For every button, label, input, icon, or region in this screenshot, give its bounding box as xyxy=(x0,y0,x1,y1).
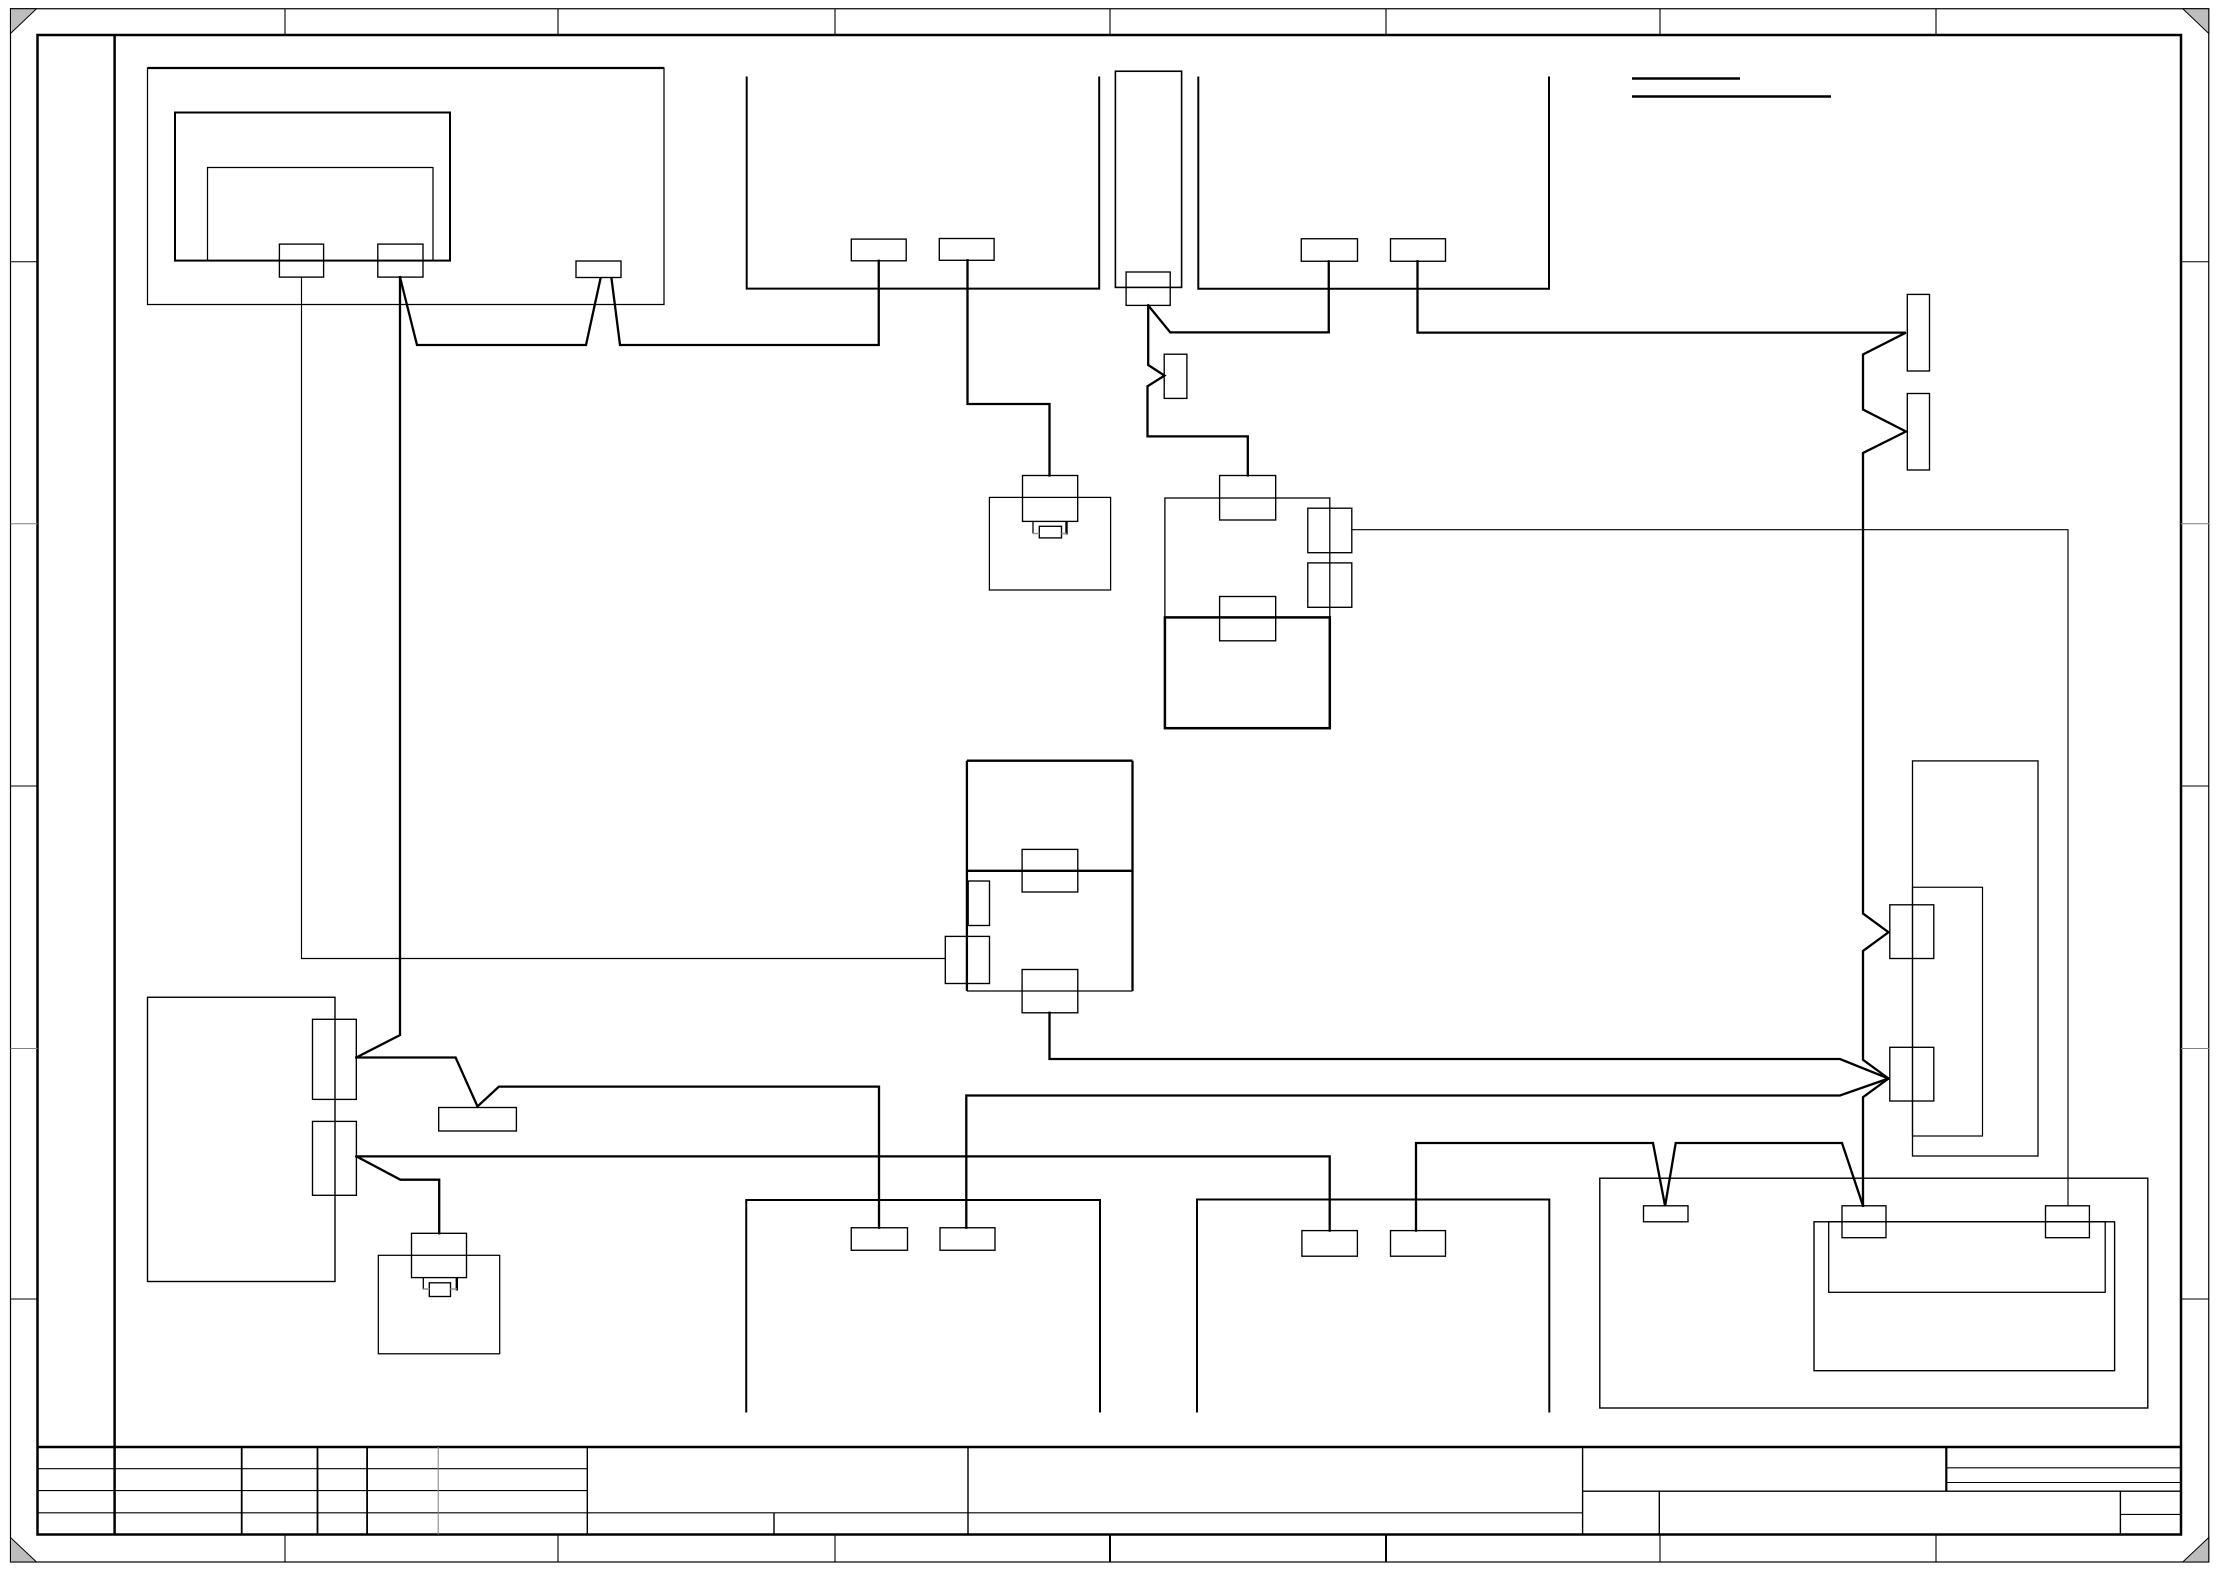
connector X5 xyxy=(851,239,906,261)
bottom margin tick 6 xyxy=(1659,1535,1661,1563)
top margin tick 2 xyxy=(557,9,559,35)
connector S1 relay narrow xyxy=(968,881,989,926)
sensor S1 bracket right foot xyxy=(1062,533,1067,535)
harness group H7 outline xyxy=(746,1200,1100,1412)
connector X12 right lower xyxy=(1907,394,1929,471)
sensor S1 body xyxy=(1023,476,1078,522)
right margin tick 4 xyxy=(2181,1048,2209,1050)
wire thin from U1 to battery positive xyxy=(1352,530,2068,1206)
connector E2 junction box xyxy=(313,1121,357,1195)
module M1 top edge xyxy=(148,67,665,69)
title block column g xyxy=(967,1447,969,1535)
right margin tick 1 xyxy=(2181,261,2209,263)
bottom margin tick 1 xyxy=(284,1535,286,1563)
sensor S2 outer box xyxy=(378,1255,499,1354)
corner trim triangle bottom-left xyxy=(11,1538,37,1563)
top margin tick 4 xyxy=(1109,9,1111,35)
module M1 inner box xyxy=(175,113,450,261)
note underline 1 xyxy=(1632,77,1740,80)
relay box M6 divider xyxy=(967,870,1133,872)
wire from connector X6 to sensor S1 xyxy=(968,260,1050,475)
title block row line 3 xyxy=(38,1512,1583,1514)
left margin tick 5 xyxy=(11,1298,38,1300)
top margin tick 5 xyxy=(1385,9,1387,35)
connector G2 box H7 xyxy=(940,1228,995,1251)
wire from right arrow to box H7 pin xyxy=(966,1079,1888,1228)
connector G1 box H7 xyxy=(851,1228,907,1251)
harness group H8 outline xyxy=(1197,1200,1549,1412)
right distribution box M10 inner xyxy=(1913,887,1983,1136)
right margin tick 2 xyxy=(2181,523,2209,525)
sensor S1 bracket left xyxy=(1032,521,1034,533)
title block top border xyxy=(38,1446,2182,1449)
note underline 2 xyxy=(1632,95,1831,98)
connector X1 xyxy=(279,244,323,277)
control unit U1 lower half xyxy=(1165,617,1330,728)
relay box M6 left edge xyxy=(966,761,968,991)
sensor S1 plug xyxy=(1039,526,1061,538)
top margin tick 7 xyxy=(1935,9,1937,35)
connector X14 U1 mid xyxy=(1220,597,1276,641)
connector F ground lug xyxy=(439,1108,517,1132)
sensor S2 bracket left foot xyxy=(423,1288,429,1290)
control unit U1 upper half xyxy=(1165,498,1330,617)
title block right row 1 xyxy=(1946,1467,2181,1469)
left margin tick 2 xyxy=(11,523,38,525)
relay box M6 right edge xyxy=(1131,761,1133,991)
title block row line 2 xyxy=(38,1490,588,1492)
sensor S1 bracket left foot xyxy=(1033,533,1039,535)
battery B1 inner cell xyxy=(1829,1222,2106,1293)
bottom margin tick 7 xyxy=(1935,1535,1937,1563)
wire from relay R2 to right arrow xyxy=(1050,1013,1889,1079)
connector L1 battery terminal xyxy=(1842,1206,1886,1238)
wire from E1 to breakout F then box H7 xyxy=(356,1058,879,1228)
connector H1 right box xyxy=(1890,905,1934,959)
left margin tick 3 xyxy=(11,785,38,787)
bottom margin tick 4 xyxy=(1109,1535,1111,1563)
wire from E2 to box H8 pin J1 xyxy=(356,1156,1329,1230)
left margin tick 4 xyxy=(11,1048,38,1050)
sensor S2 body xyxy=(412,1233,467,1277)
top margin tick 1 xyxy=(284,9,286,35)
title block mid row xyxy=(1583,1490,2181,1492)
title block column e xyxy=(586,1447,588,1535)
bottom margin tick 3 xyxy=(834,1535,836,1563)
connector X6 xyxy=(939,239,994,261)
connector X10 junction xyxy=(1164,354,1187,398)
title block column k xyxy=(2119,1491,2121,1534)
wire from J2 up and right to K and L1 xyxy=(1416,1143,1863,1231)
left margin tick 1 xyxy=(11,261,38,263)
wire from fuse box to control unit U1 xyxy=(1148,305,1248,475)
corner trim triangle bottom-right xyxy=(2183,1538,2209,1563)
sensor S1 outer box xyxy=(989,497,1110,590)
title block column b xyxy=(317,1447,319,1535)
connector S2 relay left xyxy=(945,936,989,983)
relay box M6 bottom edge xyxy=(967,990,1133,992)
harness group H3 outline xyxy=(1198,78,1549,289)
connector K battery box xyxy=(1644,1206,1689,1222)
connector X9 fuse box xyxy=(1126,272,1170,305)
connector X16 U1 right b xyxy=(1308,563,1352,607)
corner trim triangle top-left xyxy=(11,9,37,34)
fuse box F1 outline xyxy=(1115,71,1181,287)
bottom margin tick 5 xyxy=(1385,1535,1387,1563)
connector X4 xyxy=(576,261,621,278)
title block small row xyxy=(2120,1513,2181,1515)
sensor S2 plug xyxy=(429,1283,450,1297)
wire from E2 to sensor S2 xyxy=(356,1156,439,1233)
connector E1 junction box xyxy=(313,1019,357,1099)
title block column i xyxy=(1945,1447,1947,1491)
title block column a xyxy=(241,1447,243,1535)
sensor S2 bracket left xyxy=(422,1278,424,1290)
title block column c xyxy=(366,1447,368,1535)
right distribution box M10 xyxy=(1913,761,2039,1156)
connector X15 U1 right a xyxy=(1308,508,1352,553)
title block column f short xyxy=(773,1513,775,1535)
top margin tick 3 xyxy=(834,9,836,35)
right margin tick 5 xyxy=(2181,1298,2209,1300)
connector X7 xyxy=(1301,239,1357,262)
title block row line 1 xyxy=(38,1468,588,1470)
wire trunk with breakout at X4 xyxy=(400,261,879,345)
connector X2 xyxy=(378,244,423,277)
wire from connector X3 down-left trunk xyxy=(356,277,400,1057)
top margin tick 6 xyxy=(1659,9,1661,35)
title block right row 2 xyxy=(1946,1482,2181,1484)
bottom margin tick 2 xyxy=(557,1535,559,1563)
wire thin from connector X2 to relay box xyxy=(302,277,946,958)
module M1 outline xyxy=(148,68,665,305)
battery B1 outer case xyxy=(1814,1222,2115,1371)
title block column h xyxy=(1582,1447,1584,1535)
connector X11 right upper xyxy=(1907,294,1929,371)
connector R2 relay bottom xyxy=(1022,970,1078,1013)
connector L2 battery terminal xyxy=(2046,1206,2090,1238)
connector R1 relay xyxy=(1022,849,1078,892)
connector J1 box H8 xyxy=(1302,1231,1358,1257)
connector H2 right box xyxy=(1890,1047,1934,1101)
corner trim triangle top-right xyxy=(2183,9,2209,34)
connector J2 box H8 xyxy=(1391,1231,1446,1257)
wire stub H3 pin A xyxy=(1328,261,1330,332)
connector X8 xyxy=(1391,239,1446,262)
connector X13 U1 top xyxy=(1220,476,1276,521)
wire long trunk to right connectors xyxy=(1418,261,1907,1206)
sensor S2 bracket right foot xyxy=(451,1288,457,1290)
sensor S1 bracket right xyxy=(1065,521,1067,534)
harness group H2 outline xyxy=(747,78,1099,289)
title block column d xyxy=(437,1447,439,1535)
sensor S2 bracket right xyxy=(456,1278,458,1291)
revision column divider xyxy=(113,35,116,1535)
module M1 inner small box xyxy=(208,168,434,261)
title block column j xyxy=(1658,1491,1660,1534)
right margin tick 3 xyxy=(2181,785,2209,787)
relay box M6 top edge xyxy=(967,760,1133,762)
junction box M5 outline xyxy=(148,997,336,1281)
wire from fuse box to H3 pin xyxy=(1148,305,1329,332)
battery compartment M9 outline xyxy=(1600,1178,2148,1408)
